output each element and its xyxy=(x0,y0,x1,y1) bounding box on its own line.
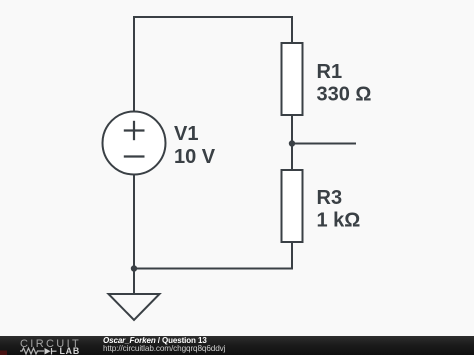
voltage source V1 symbol xyxy=(103,112,166,175)
wire left upper (V1 top lead) xyxy=(133,17,135,112)
svg-text:http://circuitlab.com/chgqrq8q: http://circuitlab.com/chgqrq8q6ddvj xyxy=(103,344,226,353)
svg-text:LAB: LAB xyxy=(60,346,80,355)
wire left lower (V1 bottom lead) xyxy=(133,175,135,269)
svg-text:R3: R3 xyxy=(317,187,343,209)
wire ground stem xyxy=(133,269,135,295)
footer logo zigzag resistor xyxy=(20,348,44,354)
footer logo diode xyxy=(45,348,51,355)
wire top from V1 to R1 xyxy=(134,16,292,18)
wire bottom from V1 to R3 xyxy=(134,268,292,270)
wire right top (R1 top lead) xyxy=(291,17,293,43)
V1 plus sign xyxy=(124,121,145,140)
svg-text:10 V: 10 V xyxy=(174,146,216,168)
V1 minus sign xyxy=(124,155,145,157)
node junction dot between R1 and R3 xyxy=(289,140,295,146)
svg-text:V1: V1 xyxy=(174,123,198,145)
ground symbol xyxy=(109,294,160,320)
node junction dot at V1 bottom / ground xyxy=(131,265,137,271)
svg-text:330 Ω: 330 Ω xyxy=(317,84,372,106)
resistor R1 body xyxy=(282,43,303,115)
svg-text:R1: R1 xyxy=(317,61,343,83)
wire R3 bottom lead xyxy=(291,242,293,269)
wire tap from node to right xyxy=(292,143,355,145)
wire R1 bottom to R3 top through node xyxy=(291,115,293,170)
resistor R3 body xyxy=(282,170,303,242)
svg-text:1 kΩ: 1 kΩ xyxy=(317,210,361,232)
footer red mark xyxy=(0,351,7,355)
